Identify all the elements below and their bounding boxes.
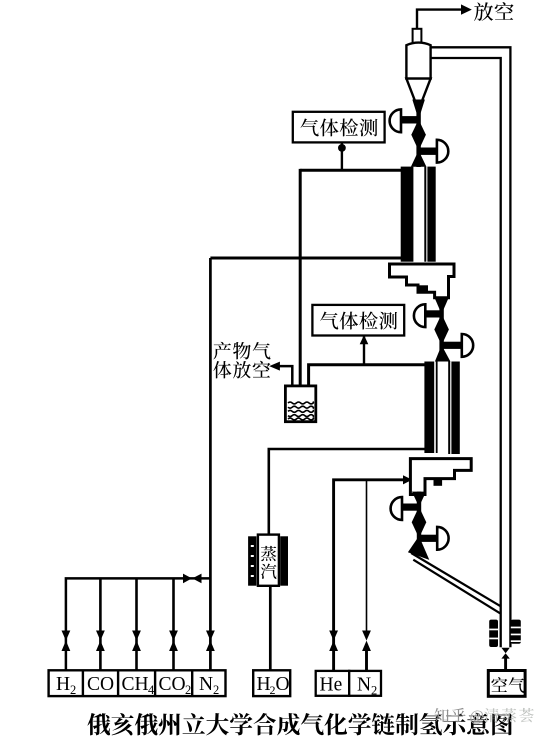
valve V3 lower cone into diagonal pipe xyxy=(408,536,429,560)
wire: CO riser xyxy=(99,578,102,670)
air heater right bar xyxy=(511,620,521,644)
wire: N2 (right) line joining He line xyxy=(365,650,368,671)
arrowhead into gas detection 2 xyxy=(360,335,369,344)
air heater left bar xyxy=(489,620,498,647)
svg-text:N: N xyxy=(199,674,213,695)
pump P2 stem xyxy=(419,148,437,155)
pump P3 (left blower at valve V2) xyxy=(414,304,425,327)
valve V1 lower cone into column 1 xyxy=(411,151,427,167)
air box xyxy=(488,671,525,697)
wire: He line to loop-seal 2 xyxy=(334,480,404,671)
cyclone separator body xyxy=(406,43,430,79)
column 1 right bar xyxy=(427,167,435,262)
wire: diagonal transfer pipe to riser, upper line xyxy=(411,553,501,606)
cyclone separator top tube xyxy=(413,29,422,44)
valve V2 connector bar xyxy=(439,297,443,361)
valve V2 body diamond xyxy=(434,314,449,345)
pump P6 stem xyxy=(419,535,438,542)
pump P5 (left blower at valve V3) xyxy=(391,497,402,520)
label: steam (vertical text) xyxy=(261,546,277,579)
column 2 inner tube line xyxy=(436,362,438,454)
pump P6 (right blower at valve V3) xyxy=(437,527,448,550)
watermark zhihu xyxy=(435,708,466,722)
valve V3 upper cone xyxy=(412,492,426,507)
column 1 left bar xyxy=(401,167,414,262)
label: air xyxy=(491,677,524,693)
pump P3 stem xyxy=(424,310,442,317)
valve V1 connector bar xyxy=(416,104,420,167)
wire: vent line from cyclone top to vent arrow xyxy=(417,10,462,30)
wire: gas manifold with H2 riser xyxy=(66,578,211,670)
loop seal 2 (column2 -> riser crossover) xyxy=(410,459,471,495)
labels for gas boxes xyxy=(56,674,219,697)
wire: riser pipe outer line (cyclone inlet to air heater, right side) xyxy=(431,47,511,647)
label: vent (fang kong) xyxy=(474,2,513,21)
wire: diagonal transfer pipe, lower line xyxy=(413,560,500,614)
column 2 right inner line xyxy=(448,362,450,455)
svg-text:N: N xyxy=(357,675,371,696)
pump P4 stem xyxy=(442,342,462,349)
svg-text:CH: CH xyxy=(122,674,149,695)
junction dot on gas detection 1 tap xyxy=(338,144,346,152)
column 1 inner tube line xyxy=(424,167,426,262)
valve V2 upper cone xyxy=(434,297,448,314)
caption: OSU syngas chemical looping hydrogen schematic xyxy=(87,713,512,736)
bubbler container xyxy=(285,386,315,422)
wire: air line from air box xyxy=(504,656,507,671)
valve V2 lower cone into column 2 xyxy=(435,345,451,361)
He feed arrowhead xyxy=(403,475,412,484)
labels: He and N2 xyxy=(320,675,378,698)
wire: bubbler outlet to column2 top (y365) xyxy=(309,365,426,386)
valve V3 body diamond xyxy=(412,507,427,538)
column 2 right bar xyxy=(451,362,459,455)
svg-text:CO: CO xyxy=(87,674,114,695)
valve V1 body diamond xyxy=(411,120,426,151)
pump P1 (left blower at valve V1) xyxy=(390,109,401,132)
wire: gas detection 1 tap line xyxy=(341,142,343,171)
wire: CO2 riser xyxy=(172,578,175,670)
gas detection box 2 xyxy=(312,305,404,336)
label: product gas line 1 xyxy=(213,342,270,360)
label: product gas line 2 xyxy=(213,361,270,379)
svg-text:2: 2 xyxy=(371,684,377,698)
wire: H2O box to steam generator xyxy=(269,586,272,671)
wire: CH4 riser xyxy=(135,578,138,670)
product vent arrowhead xyxy=(269,362,280,371)
svg-text:H: H xyxy=(56,674,70,695)
loop seal 2 black notch xyxy=(434,479,443,486)
pump P4 (right blower at valve V2) xyxy=(462,334,473,357)
wire: gas detection 2 tap line xyxy=(363,336,365,366)
steam generator right heater bar xyxy=(280,536,288,585)
steam generator body xyxy=(258,535,279,586)
loop seal 1 black notch xyxy=(419,285,428,292)
svg-text:H: H xyxy=(257,674,271,695)
wire: N2 riser x210 from feed line down to N2 box xyxy=(209,258,212,671)
pump P2 (right blower at valve V1) xyxy=(437,140,448,163)
wire: column1 top gas outlet line (y170) xyxy=(300,169,403,172)
svg-text:2: 2 xyxy=(213,683,219,697)
N2 right box xyxy=(349,671,381,696)
label: gas detection 1 xyxy=(301,119,378,137)
svg-text:CO: CO xyxy=(159,674,186,695)
steam generator left heater bar xyxy=(248,536,256,585)
label: gas detection 2 xyxy=(320,312,397,330)
gas detection box 1 xyxy=(293,112,385,143)
svg-text:2: 2 xyxy=(70,683,76,697)
svg-text:2: 2 xyxy=(185,683,191,697)
svg-text:@: @ xyxy=(470,708,484,725)
wire: steam line from steam generator to column2 bottom xyxy=(269,449,426,535)
valve on air line xyxy=(501,648,509,659)
loop seal 1 (column1 -> column2 crossover) xyxy=(390,264,455,298)
valve on manifold (bowtie) xyxy=(183,574,202,584)
wire: riser pipe inner line xyxy=(431,58,501,647)
He box xyxy=(316,671,350,696)
gas supply boxes H2 CO CH4 CO2 N2 xyxy=(49,670,226,696)
label: H2O xyxy=(257,674,290,697)
valve V1 upper cone (solids from cyclone) xyxy=(412,100,425,120)
svg-text:He: He xyxy=(320,675,343,696)
wire: column1 bottom feed line (y258) xyxy=(210,257,403,260)
valve V3 connector bar xyxy=(417,492,421,554)
pump P1 stem xyxy=(400,116,419,123)
small feed valves on gas lines xyxy=(62,631,371,652)
vent arrowhead xyxy=(461,4,472,14)
bubbler liquid xyxy=(288,402,313,420)
pump P5 stem xyxy=(401,504,420,511)
svg-text:4: 4 xyxy=(148,683,155,697)
column 2 left bar xyxy=(424,362,434,454)
watermark handle xyxy=(484,708,533,722)
wire: vertical line x300 from outlet down to bubbler xyxy=(299,169,302,386)
svg-text:O: O xyxy=(276,674,290,695)
cyclone cone xyxy=(406,79,430,104)
H2O box xyxy=(253,670,290,696)
wire: product gas vent from bubbler xyxy=(279,366,293,386)
